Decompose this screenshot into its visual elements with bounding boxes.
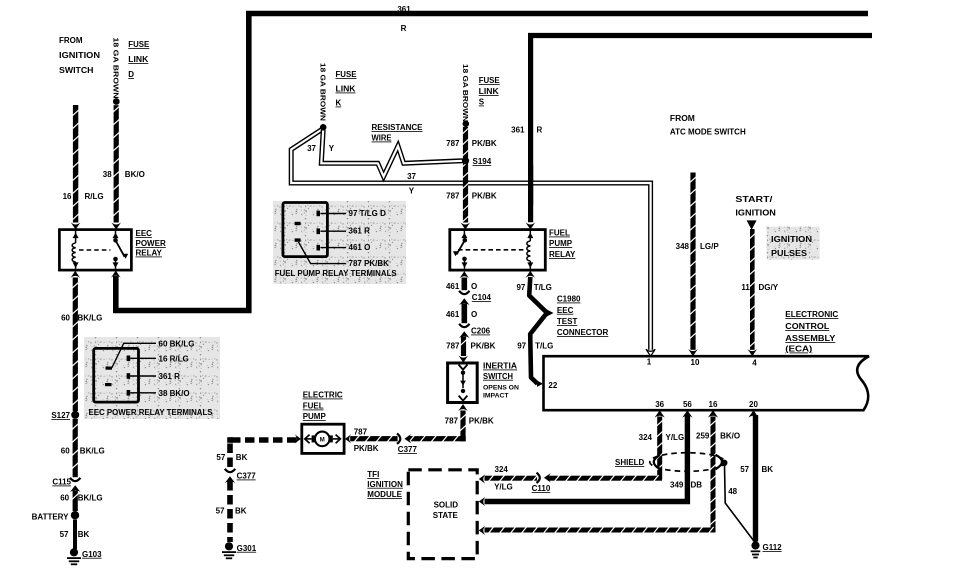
svg-text:K: K [336, 99, 342, 108]
svg-text:BK/LG: BK/LG [80, 447, 105, 456]
svg-text:Y/LG: Y/LG [494, 483, 513, 492]
svg-text:60: 60 [61, 314, 70, 323]
svg-text:97: 97 [517, 342, 526, 351]
svg-text:D: D [128, 70, 134, 79]
svg-text:97 T/LG D: 97 T/LG D [349, 209, 387, 218]
svg-text:22: 22 [548, 381, 557, 390]
svg-text:C104: C104 [472, 293, 492, 302]
svg-text:S194: S194 [473, 157, 492, 166]
svg-text:37: 37 [407, 172, 416, 181]
svg-text:EEC POWER RELAY TERMINALS: EEC POWER RELAY TERMINALS [89, 408, 214, 417]
svg-text:LG/P: LG/P [700, 242, 719, 251]
svg-text:361: 361 [511, 126, 525, 135]
svg-text:57: 57 [740, 465, 749, 474]
svg-text:461: 461 [446, 282, 460, 291]
svg-text:18 GA BROWN: 18 GA BROWN [318, 63, 325, 121]
svg-text:461 O: 461 O [349, 243, 371, 252]
svg-text:G112: G112 [763, 543, 783, 552]
svg-text:BATTERY: BATTERY [32, 513, 70, 522]
svg-text:361: 361 [397, 5, 411, 14]
svg-text:RESISTANCE: RESISTANCE [372, 123, 424, 132]
svg-text:PK/BK: PK/BK [472, 192, 497, 201]
svg-text:C115: C115 [52, 478, 71, 487]
svg-text:PK/BK: PK/BK [471, 342, 496, 351]
svg-text:SWITCH: SWITCH [59, 66, 94, 75]
svg-text:T/LG: T/LG [535, 342, 553, 351]
svg-text:57: 57 [60, 530, 69, 539]
svg-text:BK: BK [78, 530, 90, 539]
svg-text:4: 4 [752, 358, 757, 367]
svg-text:START/: START/ [735, 195, 773, 204]
svg-text:R: R [401, 24, 407, 33]
svg-text:R/LG: R/LG [85, 192, 104, 201]
svg-text:ASSEMBLY: ASSEMBLY [785, 334, 836, 343]
svg-text:STATE: STATE [433, 511, 459, 520]
svg-text:787: 787 [354, 428, 368, 437]
svg-text:361 R: 361 R [349, 227, 371, 236]
svg-text:(ECA): (ECA) [785, 345, 812, 354]
svg-text:IGNITION: IGNITION [59, 51, 100, 60]
svg-text:G301: G301 [237, 544, 257, 553]
svg-text:O: O [471, 282, 477, 291]
svg-text:324: 324 [495, 465, 509, 474]
svg-text:ELECTRIC: ELECTRIC [303, 391, 343, 400]
svg-text:LINK: LINK [336, 85, 356, 94]
svg-text:DB: DB [691, 481, 703, 490]
svg-text:TEST: TEST [557, 317, 578, 326]
svg-text:36: 36 [655, 400, 664, 409]
svg-text:LINK: LINK [479, 87, 499, 96]
svg-text:OPENS ON: OPENS ON [483, 384, 519, 391]
svg-text:BK/O: BK/O [720, 432, 740, 441]
svg-text:Y/LG: Y/LG [666, 433, 685, 442]
svg-text:IGNITION: IGNITION [735, 209, 776, 218]
svg-text:361 R: 361 R [159, 372, 181, 381]
svg-text:11: 11 [741, 283, 750, 292]
svg-text:BK/LG: BK/LG [78, 494, 103, 503]
svg-text:PK/BK: PK/BK [469, 417, 494, 426]
svg-text:FUSE: FUSE [336, 70, 358, 79]
svg-text:SOLID: SOLID [434, 501, 459, 510]
svg-text:FUSE: FUSE [128, 40, 150, 49]
svg-text:WIRE: WIRE [372, 134, 393, 143]
svg-text:1: 1 [647, 358, 652, 367]
svg-text:56: 56 [683, 400, 692, 409]
svg-text:60 BK/LG: 60 BK/LG [159, 339, 195, 348]
svg-text:57: 57 [216, 507, 225, 516]
svg-text:461: 461 [446, 310, 460, 319]
svg-text:S127: S127 [51, 411, 70, 420]
svg-text:PUMP: PUMP [549, 239, 573, 248]
svg-text:16: 16 [709, 400, 718, 409]
svg-text:LINK: LINK [128, 55, 148, 64]
svg-text:PULSES: PULSES [771, 249, 808, 258]
svg-text:MODULE: MODULE [367, 490, 402, 499]
svg-text:259: 259 [696, 432, 710, 441]
svg-text:349: 349 [670, 481, 684, 490]
svg-text:C110: C110 [532, 484, 551, 493]
svg-text:INERTIA: INERTIA [483, 362, 517, 371]
svg-text:38 BK/O: 38 BK/O [159, 389, 190, 398]
svg-text:SWITCH: SWITCH [483, 372, 513, 381]
svg-text:IMPACT: IMPACT [483, 392, 509, 399]
svg-text:T/LG: T/LG [534, 283, 552, 292]
svg-text:C377: C377 [237, 472, 257, 481]
svg-text:324: 324 [639, 433, 653, 442]
svg-text:G103: G103 [82, 550, 102, 559]
svg-text:PUMP: PUMP [303, 412, 327, 421]
svg-text:37: 37 [307, 144, 316, 153]
svg-text:IGNITION: IGNITION [367, 480, 403, 489]
svg-text:16 R/LG: 16 R/LG [159, 354, 189, 363]
svg-text:18 GA BROWN: 18 GA BROWN [461, 64, 468, 122]
svg-text:IGNITION: IGNITION [771, 235, 812, 244]
svg-text:RELAY: RELAY [136, 249, 163, 258]
svg-text:C1980: C1980 [557, 295, 581, 304]
svg-text:48: 48 [728, 487, 737, 496]
svg-text:60: 60 [60, 494, 69, 503]
svg-text:FUEL: FUEL [303, 402, 324, 411]
svg-text:PK/BK: PK/BK [354, 444, 379, 453]
svg-text:SHIELD: SHIELD [615, 458, 645, 467]
svg-text:CONNECTOR: CONNECTOR [557, 328, 609, 337]
svg-text:ELECTRONIC: ELECTRONIC [785, 310, 838, 319]
svg-text:787: 787 [446, 139, 460, 148]
svg-text:787: 787 [446, 342, 460, 351]
svg-text:348: 348 [676, 242, 690, 251]
svg-text:EEC: EEC [136, 229, 153, 238]
svg-text:BK: BK [762, 465, 774, 474]
svg-text:EEC: EEC [557, 306, 574, 315]
svg-text:FUSE: FUSE [479, 76, 501, 85]
svg-text:R: R [537, 126, 543, 135]
svg-text:16: 16 [63, 192, 72, 201]
svg-text:BK/LG: BK/LG [78, 314, 103, 323]
svg-text:DG/Y: DG/Y [759, 283, 779, 292]
svg-text:FUEL PUMP RELAY TERMINALS: FUEL PUMP RELAY TERMINALS [275, 269, 398, 278]
svg-text:Y: Y [329, 144, 335, 153]
svg-text:Y: Y [409, 187, 415, 196]
svg-text:ATC MODE SWITCH: ATC MODE SWITCH [670, 128, 746, 137]
svg-text:20: 20 [749, 400, 758, 409]
svg-text:FROM: FROM [670, 114, 695, 123]
svg-text:57: 57 [216, 453, 225, 462]
svg-text:CONTROL: CONTROL [785, 322, 829, 331]
svg-text:10: 10 [691, 358, 700, 367]
svg-text:RELAY: RELAY [549, 250, 576, 259]
svg-text:C377: C377 [398, 445, 418, 454]
svg-text:POWER: POWER [136, 239, 166, 248]
svg-text:60: 60 [61, 447, 70, 456]
svg-text:BK: BK [236, 453, 248, 462]
svg-text:787 PK/BK: 787 PK/BK [349, 259, 390, 268]
svg-text:787: 787 [446, 192, 460, 201]
svg-text:BK: BK [235, 507, 247, 516]
svg-text:C206: C206 [471, 327, 491, 336]
svg-text:S: S [479, 98, 485, 107]
svg-text:97: 97 [516, 283, 525, 292]
svg-text:FUEL: FUEL [549, 229, 570, 238]
svg-text:TFI: TFI [367, 470, 379, 479]
svg-text:FROM: FROM [59, 36, 83, 45]
svg-text:BK/O: BK/O [125, 170, 145, 179]
svg-text:787: 787 [445, 417, 459, 426]
svg-text:18 GA BROWN: 18 GA BROWN [112, 38, 119, 99]
svg-text:O: O [471, 310, 477, 319]
svg-text:38: 38 [103, 170, 112, 179]
svg-text:PK/BK: PK/BK [472, 139, 497, 148]
svg-text:M: M [320, 438, 325, 444]
